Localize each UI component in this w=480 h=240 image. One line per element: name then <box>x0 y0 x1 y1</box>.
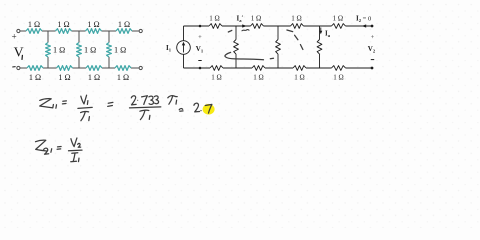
node A junction dot top <box>199 25 202 28</box>
annotation handwritten dashed arc stroke 1 <box>287 30 293 32</box>
annotation handwritten curved arrow pointing left <box>225 52 264 59</box>
annotation handwritten squiggle below Ia' arrow <box>242 30 249 31</box>
resistor R19 1ohm bottom right network <box>210 66 223 82</box>
svg-text:1 Ω: 1 Ω <box>87 20 99 29</box>
resistor R18 1ohm shunt right network <box>317 26 322 68</box>
svg-text:1 Ω: 1 Ω <box>118 20 130 29</box>
svg-text:1 Ω: 1 Ω <box>333 74 343 82</box>
resistor R17 1ohm shunt right network <box>276 26 281 68</box>
minus sign V2 <box>371 59 374 61</box>
terminal top-left left network <box>17 29 20 32</box>
resistor R6 1ohm shunt left network <box>77 43 97 58</box>
resistor R22 1ohm bottom right network <box>332 66 346 82</box>
resistor R14 1ohm top right network <box>291 15 304 29</box>
terminal bottom-left left network <box>17 66 20 69</box>
wire bottom rail left network <box>20 67 139 69</box>
svg-text:1 Ω: 1 Ω <box>84 45 96 54</box>
wire shunt branch 3 left network <box>108 31 110 68</box>
terminal top-right left network <box>139 29 142 32</box>
label V1 left network <box>14 44 24 59</box>
node B junction dot bottom <box>199 67 202 70</box>
svg-text:+: + <box>12 32 17 42</box>
svg-text:1 Ω: 1 Ω <box>29 73 41 82</box>
resistor R1 1ohm top left network <box>26 20 42 33</box>
svg-text:I2 = 0: I2 = 0 <box>356 15 371 24</box>
annotation handwritten dashed arc stroke 3 <box>300 45 303 50</box>
resistor R15 1ohm top right network <box>332 15 346 29</box>
annotation handwritten equals 3 <box>57 147 61 150</box>
resistor R20 1ohm bottom right network <box>252 66 265 82</box>
annotation handwritten equals 1 <box>62 101 66 104</box>
svg-text:+: + <box>371 34 375 41</box>
resistor R9 1ohm bottom left network <box>57 66 73 83</box>
svg-text:1 Ω: 1 Ω <box>251 15 261 23</box>
annotation handwritten fraction 2.733 I1 over I1 <box>130 96 161 120</box>
wire shunt branch 1 left network <box>47 31 49 68</box>
annotation handwritten dash 1 <box>270 57 273 60</box>
minus sign V1 right network <box>198 60 201 62</box>
terminal bottom-right left network <box>139 66 142 69</box>
resistor R16 1ohm shunt right network <box>234 26 239 68</box>
terminal dot top-right right network <box>371 25 374 28</box>
annotation yellow highlight <box>203 104 215 115</box>
svg-text:1 Ω: 1 Ω <box>211 74 221 82</box>
annotation handwritten fraction V2 over I1 <box>69 138 83 162</box>
svg-text:+: + <box>198 34 202 41</box>
current arrow I2 pointing left <box>362 24 367 27</box>
wire top rail right network <box>184 25 373 27</box>
current arrow Ia' on top wire <box>242 24 247 27</box>
annotation handwritten dashed arc stroke 2 <box>295 35 298 40</box>
wire shunt branch 2 left network <box>78 31 80 68</box>
svg-text:1 Ω: 1 Ω <box>57 20 69 29</box>
annotation handwritten approx sign <box>179 109 183 112</box>
resistor R10 1ohm bottom left network <box>86 66 102 83</box>
annotation handwritten Z11 <box>40 99 57 109</box>
svg-text:1 Ω: 1 Ω <box>28 20 40 29</box>
resistor R11 1ohm bottom left network <box>115 66 131 83</box>
svg-text:1 Ω: 1 Ω <box>294 74 304 82</box>
current arrow Ia down <box>319 28 322 35</box>
resistor R8 1ohm bottom left network <box>27 66 43 83</box>
svg-text:1 Ω: 1 Ω <box>117 73 129 82</box>
wire top rail left network <box>20 30 139 32</box>
svg-text:1 Ω: 1 Ω <box>291 15 301 23</box>
svg-text:1 Ω: 1 Ω <box>53 45 65 54</box>
svg-text:1 Ω: 1 Ω <box>114 45 126 54</box>
resistor R2 1ohm top left network <box>56 20 72 33</box>
resistor R3 1ohm top left network <box>86 20 102 33</box>
svg-text:1 Ω: 1 Ω <box>58 73 70 82</box>
resistor R4 1ohm top left network <box>116 20 132 33</box>
resistor R7 1ohm shunt left network <box>107 43 127 58</box>
annotation handwritten Z21 <box>36 140 52 154</box>
svg-text:1 Ω: 1 Ω <box>333 15 343 23</box>
annotation handwritten fraction V1 over I1 <box>78 95 92 121</box>
svg-text:1 Ω: 1 Ω <box>88 73 100 82</box>
svg-text:1 Ω: 1 Ω <box>209 15 219 23</box>
annotation handwritten result 2.7 <box>194 103 212 113</box>
annotation handwritten I1 after fraction <box>168 96 177 105</box>
wire bottom rail right network <box>184 67 373 69</box>
resistor R12 1ohm top right network <box>209 15 222 29</box>
resistor R21 1ohm bottom right network <box>293 66 306 82</box>
svg-text:1 Ω: 1 Ω <box>253 74 263 82</box>
annotation handwritten equals 2 <box>108 102 113 106</box>
terminal dot bottom-right right network <box>371 67 374 70</box>
resistor R5 1ohm shunt left network <box>46 43 66 58</box>
resistor R13 1ohm top right network <box>251 15 264 29</box>
annotation handwritten minus tick near node <box>228 30 232 32</box>
minus sign V1 left network <box>12 66 15 68</box>
current source I1 <box>177 26 191 68</box>
